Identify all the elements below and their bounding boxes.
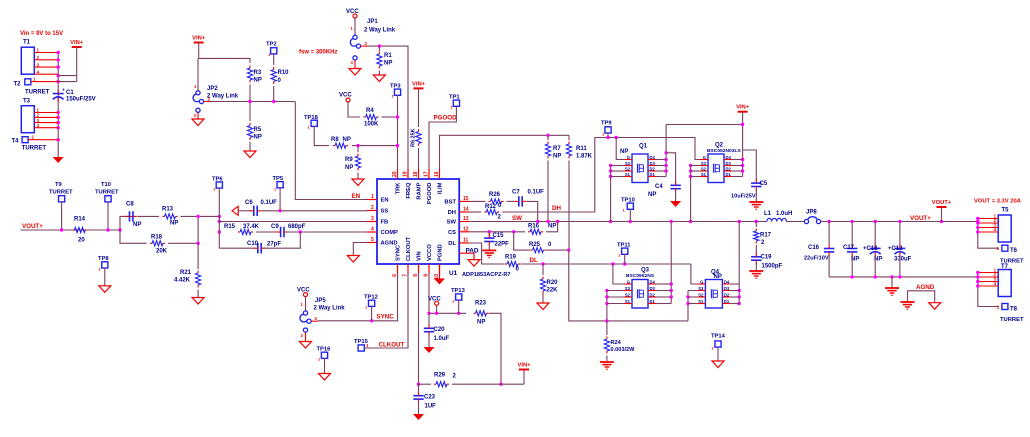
svg-text:C5: C5 xyxy=(760,181,768,187)
wire Q1 S stubs xyxy=(611,166,624,177)
junction TP9 xyxy=(606,136,618,139)
turret T5 xyxy=(998,208,1011,243)
capacitor C9 xyxy=(271,224,306,237)
wire DH net xyxy=(502,138,708,213)
svg-text:18: 18 xyxy=(413,171,419,177)
junction TRK line xyxy=(396,115,399,147)
svg-text:T10: T10 xyxy=(101,182,111,188)
turret T10 xyxy=(95,182,119,202)
svg-text:NP: NP xyxy=(620,149,628,155)
port arrow EN input xyxy=(232,206,238,215)
turret T5 pins xyxy=(978,214,998,233)
capacitor C5 xyxy=(731,150,768,202)
wire Q1 S bus xyxy=(610,166,612,222)
svg-text:D1: D1 xyxy=(650,299,656,304)
junction EN row xyxy=(248,100,275,103)
svg-text:13: 13 xyxy=(463,216,469,222)
svg-text:VIN+: VIN+ xyxy=(736,105,750,111)
svg-text:R29: R29 xyxy=(434,373,446,379)
svg-text:EN: EN xyxy=(352,193,361,200)
junction Q2 S xyxy=(689,164,692,178)
ground C5 xyxy=(749,202,763,209)
wire to VIN+ flag xyxy=(501,383,524,385)
resistor R16 xyxy=(528,224,556,235)
svg-text:C9: C9 xyxy=(271,224,279,230)
svg-text:TP13: TP13 xyxy=(451,288,466,294)
svg-text:5: 5 xyxy=(371,237,374,243)
svg-text:TURRET: TURRET xyxy=(95,190,119,196)
pad PAD xyxy=(459,248,480,267)
resistor R6 xyxy=(411,128,422,170)
svg-text:1: 1 xyxy=(37,48,40,53)
wire DL net xyxy=(521,263,691,265)
wire L1 to JP8 xyxy=(787,221,805,223)
svg-text:BST: BST xyxy=(444,199,456,205)
svg-text:C10: C10 xyxy=(247,241,259,247)
testpoint TP9 xyxy=(601,121,612,137)
svg-text:19: 19 xyxy=(403,171,409,177)
junction VIN rail xyxy=(741,123,744,173)
wire C8 to R13 xyxy=(138,215,160,217)
wire C9 to COMP xyxy=(286,231,367,233)
ground TP8 xyxy=(99,286,111,293)
resistor R23 xyxy=(473,301,488,326)
junction Q4 S xyxy=(686,295,689,305)
svg-text:L1: L1 xyxy=(764,211,772,217)
capacitor C20 xyxy=(424,313,450,347)
wire JP2 pin2 to EN net xyxy=(204,101,296,103)
svg-text:15: 15 xyxy=(463,196,469,202)
turret T1 xyxy=(21,40,34,75)
junction gnd rail xyxy=(851,275,902,278)
wire R8 to TRK xyxy=(352,145,398,147)
testpoint TP13 xyxy=(451,288,466,304)
svg-text:TP18: TP18 xyxy=(304,115,319,121)
svg-text:3: 3 xyxy=(37,62,40,67)
label SYNC xyxy=(377,313,395,320)
text fsw note xyxy=(299,50,338,56)
junction R9 top xyxy=(356,144,359,147)
wire TP13 stub xyxy=(458,300,460,314)
resistor R25 xyxy=(529,242,552,253)
svg-text:C16: C16 xyxy=(808,245,820,251)
svg-text:C8: C8 xyxy=(126,202,134,208)
svg-text:4: 4 xyxy=(371,227,374,233)
svg-text:T3: T3 xyxy=(23,99,31,105)
svg-text:VOUT+: VOUT+ xyxy=(22,223,43,230)
resistor R29 xyxy=(419,373,457,387)
ground input xyxy=(53,157,64,163)
svg-text:TP6: TP6 xyxy=(212,177,223,183)
power VCC JP1 xyxy=(346,9,359,18)
svg-text:TP10: TP10 xyxy=(621,198,635,204)
jumper JP2 xyxy=(193,84,239,118)
svg-text:G: G xyxy=(700,279,703,284)
svg-text:TRK: TRK xyxy=(396,182,402,195)
wire TP11 stub xyxy=(624,254,626,264)
wire C10 row xyxy=(219,247,255,249)
svg-text:+: + xyxy=(62,88,65,94)
wire T10 stub xyxy=(107,202,109,231)
svg-text:R3: R3 xyxy=(254,70,262,76)
svg-text:Vin = 9V to 15V: Vin = 9V to 15V xyxy=(20,31,63,37)
svg-text:C23: C23 xyxy=(424,395,436,401)
svg-text:fsw = 300KHz: fsw = 300KHz xyxy=(299,50,338,56)
ground output rail xyxy=(885,277,899,295)
svg-text:R10: R10 xyxy=(278,70,290,76)
svg-text:TURRET: TURRET xyxy=(25,90,50,96)
node input bus xyxy=(57,52,59,157)
turret T1 pins xyxy=(34,48,58,75)
turret T7 xyxy=(998,264,1011,297)
svg-text:100K: 100K xyxy=(364,122,379,128)
testpoint TP8 xyxy=(98,256,109,272)
svg-text:R15: R15 xyxy=(224,224,236,230)
ground R24 xyxy=(600,362,614,369)
svg-text:NP: NP xyxy=(548,224,556,230)
testpoint TP18 xyxy=(304,115,319,130)
resistor R12 xyxy=(484,204,501,221)
svg-text:TURRET: TURRET xyxy=(22,146,47,152)
ground C4 xyxy=(670,201,681,207)
wire JP1 pin2 to FREQ xyxy=(361,46,408,170)
svg-text:VIN+: VIN+ xyxy=(192,36,206,42)
junction VOUT row xyxy=(60,228,122,231)
svg-text:0.1UF: 0.1UF xyxy=(261,200,278,206)
wire R16 to SW xyxy=(546,222,558,232)
power VCC JP5 xyxy=(297,288,310,297)
wire EN net to pin xyxy=(295,102,367,200)
svg-text:2 Way Link: 2 Way Link xyxy=(364,28,396,34)
text VOUT spec xyxy=(974,199,1022,205)
wire VIN+ to R3 xyxy=(199,58,250,63)
wire R4 to TRK xyxy=(382,116,398,118)
testpoint TP11 xyxy=(617,243,631,258)
wire CLKOUT net xyxy=(364,273,408,348)
testpoint TP5 xyxy=(273,176,284,192)
svg-text:COMP: COMP xyxy=(381,230,399,236)
svg-text:20K: 20K xyxy=(156,249,168,255)
node AGND tie xyxy=(908,291,935,303)
capacitor C8 xyxy=(126,202,142,229)
svg-text:TP2: TP2 xyxy=(266,42,277,48)
svg-text:TP14: TP14 xyxy=(711,334,726,340)
wire TP3 to TRK pin xyxy=(397,95,399,170)
wire R15 to C9 xyxy=(256,231,278,233)
svg-text:NP: NP xyxy=(553,154,561,160)
capacitor C15 xyxy=(484,232,509,251)
svg-text:2 Way Link: 2 Way Link xyxy=(207,94,239,100)
junction Q1 S xyxy=(609,164,612,178)
svg-text:R9: R9 xyxy=(345,157,353,163)
capacitor C17 xyxy=(843,222,859,277)
wire TP5 stub xyxy=(279,188,281,211)
junction T7 bus xyxy=(976,271,979,288)
resistor R15 xyxy=(224,224,260,235)
svg-text:CLKOUT: CLKOUT xyxy=(406,236,412,261)
ground JP1 xyxy=(349,69,361,76)
svg-text:680pF: 680pF xyxy=(288,224,306,230)
junction R7 top xyxy=(546,134,549,137)
svg-text:R20: R20 xyxy=(547,280,559,286)
wire R23 to VIN+ xyxy=(489,313,501,384)
svg-text:1: 1 xyxy=(371,194,374,200)
svg-text:1.0uF: 1.0uF xyxy=(434,336,450,342)
label AGND xyxy=(916,284,935,291)
wire ILIM net xyxy=(440,135,570,170)
svg-text:330uF: 330uF xyxy=(894,257,912,263)
junction DL row xyxy=(541,262,626,265)
svg-text:SW: SW xyxy=(512,215,522,222)
turret T9 xyxy=(49,182,73,202)
svg-text:T5: T5 xyxy=(1002,208,1010,214)
wire JP2 pin3 gnd xyxy=(197,112,199,119)
wire AGND pin xyxy=(353,243,367,256)
svg-text:1: 1 xyxy=(366,343,369,348)
wire VCC to R4 xyxy=(348,102,360,117)
svg-text:2: 2 xyxy=(208,96,211,101)
wire Q3 gate xyxy=(613,264,632,284)
svg-text:T6: T6 xyxy=(1010,248,1018,254)
wire output gnd rail xyxy=(829,276,978,278)
ground JP5 xyxy=(300,342,312,349)
wire VOUT row xyxy=(21,229,121,231)
wire C6 to SS xyxy=(262,210,368,212)
node FB left vertical xyxy=(197,216,199,243)
svg-text:CLKOUT: CLKOUT xyxy=(379,341,405,348)
svg-text:TP12: TP12 xyxy=(364,295,378,301)
svg-text:DH: DH xyxy=(448,210,456,216)
svg-text:JP8: JP8 xyxy=(806,210,817,216)
capacitor C1 xyxy=(53,88,96,103)
svg-text:1: 1 xyxy=(997,246,1000,251)
wire R25 to sense xyxy=(546,249,569,251)
svg-text:ILIM: ILIM xyxy=(438,182,444,194)
wire TP18 to R8 xyxy=(314,126,329,146)
testpoint TP10 xyxy=(621,198,635,213)
svg-text:Q2: Q2 xyxy=(715,143,724,149)
power VIN+ JP2 xyxy=(192,36,206,59)
resistor R8 xyxy=(331,137,351,148)
capacitor C16 xyxy=(804,222,834,277)
power VIN+ bottom xyxy=(517,363,531,385)
svg-text:R19: R19 xyxy=(505,255,517,261)
junction TP5 xyxy=(278,209,281,212)
svg-text:JP1: JP1 xyxy=(367,19,378,25)
svg-text:TP5: TP5 xyxy=(273,176,284,182)
label DL xyxy=(530,257,538,264)
svg-text:NP: NP xyxy=(254,135,262,141)
svg-text:NP: NP xyxy=(714,274,722,280)
resistor R26 xyxy=(488,192,503,209)
svg-text:R17: R17 xyxy=(760,233,772,239)
resistor R5 xyxy=(247,102,261,152)
turret T3 pins xyxy=(34,108,58,128)
svg-text:TP8: TP8 xyxy=(98,256,109,262)
testpoint TP15 xyxy=(354,339,369,351)
wire BST to R26 xyxy=(469,200,486,202)
svg-text:NP: NP xyxy=(648,192,656,198)
turret T4 xyxy=(12,135,47,152)
junction R1 top xyxy=(378,44,381,47)
svg-text:1: 1 xyxy=(997,304,1000,309)
svg-text:10uF/25V: 10uF/25V xyxy=(731,194,756,200)
wire Q4 S bus xyxy=(687,291,689,321)
svg-text:S2: S2 xyxy=(701,166,707,171)
junction C10 top xyxy=(299,230,302,233)
ground R5 xyxy=(244,151,256,158)
wire T4 to bus xyxy=(28,139,58,141)
svg-text:TP11: TP11 xyxy=(617,243,631,249)
turret T3 xyxy=(21,99,34,133)
svg-text:R18: R18 xyxy=(151,235,163,241)
testpoint TP14 xyxy=(711,334,726,351)
svg-text:TP1: TP1 xyxy=(449,95,460,101)
capacitor C12 xyxy=(888,222,912,277)
wire R29 to corner xyxy=(452,383,501,385)
power VCC VCCO xyxy=(428,297,441,314)
wire Q2 S bus xyxy=(690,166,692,222)
wire Q3 D bus xyxy=(670,222,672,304)
wire Q1 D stubs xyxy=(656,160,666,177)
ground AGND earth xyxy=(901,302,915,309)
svg-text:TP9: TP9 xyxy=(601,121,612,127)
wire VCC to JP5 xyxy=(305,297,307,311)
wire TP9 stub xyxy=(607,133,609,138)
wire SYNC net xyxy=(318,273,398,321)
svg-text:S2: S2 xyxy=(698,292,704,297)
svg-text:JP5: JP5 xyxy=(315,298,326,304)
resistor R17 xyxy=(754,222,772,255)
svg-text:D1: D1 xyxy=(650,172,656,177)
svg-text:VCC: VCC xyxy=(339,93,352,99)
wire TP16 gnd stub xyxy=(324,358,326,374)
capacitor C4 xyxy=(648,153,681,201)
svg-text:1: 1 xyxy=(33,77,36,82)
svg-text:+C12: +C12 xyxy=(888,246,903,252)
svg-text:ADP1853ACPZ-R7: ADP1853ACPZ-R7 xyxy=(462,272,511,278)
testpoint TP3 xyxy=(390,84,401,99)
wire Q2 D stubs xyxy=(732,160,743,177)
junction R25 R11 xyxy=(567,248,570,251)
wire JP5 pin2 xyxy=(311,320,318,322)
wire DH to R12 xyxy=(469,211,481,213)
svg-text:R1: R1 xyxy=(384,53,392,59)
svg-text:T2: T2 xyxy=(14,82,22,88)
wire Q2 S stubs xyxy=(691,166,700,177)
svg-text:DL: DL xyxy=(530,257,538,264)
ground C20 xyxy=(424,347,435,353)
svg-text:D3: D3 xyxy=(650,161,656,166)
wire DL jog xyxy=(469,243,505,264)
wire Q4 D bus xyxy=(738,222,740,304)
transistor Q2 xyxy=(700,143,741,183)
svg-text:VIN: VIN xyxy=(417,251,423,261)
ground TP14 xyxy=(712,361,724,368)
power VCC R4 xyxy=(339,93,352,103)
capacitor C23 xyxy=(413,384,436,414)
wire PGOOD net xyxy=(429,106,456,170)
ground R1 xyxy=(373,75,385,82)
label CLKOUT xyxy=(379,341,405,348)
op-amp U1 body xyxy=(377,179,459,264)
svg-text:4: 4 xyxy=(37,123,40,128)
svg-text:S3: S3 xyxy=(625,161,631,166)
wire arrow to C6 xyxy=(238,210,251,212)
wire CS row xyxy=(469,231,525,233)
junction R29 row xyxy=(417,383,503,386)
svg-text:VCC: VCC xyxy=(346,9,359,15)
label SW xyxy=(512,215,522,222)
svg-text:R16: R16 xyxy=(528,224,540,230)
wire VIN pin net xyxy=(418,273,420,384)
junction Q3 D xyxy=(670,282,673,298)
svg-text:PGND: PGND xyxy=(438,244,444,261)
svg-text:S3: S3 xyxy=(625,286,631,291)
wire Q3 S stubs xyxy=(607,291,624,304)
ground AGND triangle xyxy=(929,303,941,310)
svg-text:22uF/10V: 22uF/10V xyxy=(804,256,829,262)
svg-text:C17: C17 xyxy=(843,245,855,251)
jumper JP5 xyxy=(300,298,345,338)
svg-text:D2: D2 xyxy=(650,166,656,171)
svg-text:PGOOD: PGOOD xyxy=(434,115,458,122)
svg-text:T8: T8 xyxy=(1010,306,1018,312)
svg-text:CS: CS xyxy=(448,230,456,236)
ground R20 xyxy=(537,303,549,310)
node T7 bus xyxy=(978,273,999,307)
svg-text:D2: D2 xyxy=(724,292,730,297)
junction Q4 D xyxy=(738,289,741,305)
label DH xyxy=(552,205,561,212)
node FB vertical xyxy=(218,188,220,249)
wire sense drop xyxy=(569,250,688,321)
wire VCCO net xyxy=(429,273,466,313)
testpoint TP12 xyxy=(364,295,378,310)
svg-text:R12: R12 xyxy=(485,204,497,210)
junction CS row xyxy=(488,230,516,233)
resistor R13 xyxy=(162,207,178,227)
svg-text:D1: D1 xyxy=(724,299,730,304)
svg-text:37.4K: 37.4K xyxy=(243,224,260,230)
wire T9 stub xyxy=(61,202,63,231)
junction input bus dots xyxy=(57,51,60,142)
wire TP10 stub xyxy=(629,209,631,222)
svg-text:4: 4 xyxy=(37,69,40,74)
svg-text:0.1UF: 0.1UF xyxy=(528,190,545,196)
op-amp U1 bottom pins xyxy=(392,236,444,279)
svg-text:R11: R11 xyxy=(576,146,587,152)
label VOUT+ left xyxy=(22,223,43,230)
svg-text:C6: C6 xyxy=(245,200,253,206)
svg-text:VIN+: VIN+ xyxy=(517,363,531,369)
svg-text:S3: S3 xyxy=(701,161,707,166)
op-amp U1 left pins xyxy=(367,194,398,247)
svg-text:3: 3 xyxy=(371,216,374,222)
wire C7 to SW xyxy=(527,201,538,221)
svg-text:S1: S1 xyxy=(625,299,631,304)
turret T6 xyxy=(997,245,1024,264)
svg-text:TP3: TP3 xyxy=(390,84,401,90)
svg-text:VIN+: VIN+ xyxy=(70,40,84,46)
wire R26 to C7 xyxy=(507,200,515,202)
svg-text:T9: T9 xyxy=(55,182,63,188)
svg-text:D2: D2 xyxy=(650,292,656,297)
svg-text:R5: R5 xyxy=(254,127,262,133)
wire T2 to bus xyxy=(31,81,58,83)
turret T7 pins xyxy=(978,268,998,287)
svg-text:0.003/2W: 0.003/2W xyxy=(611,347,636,353)
